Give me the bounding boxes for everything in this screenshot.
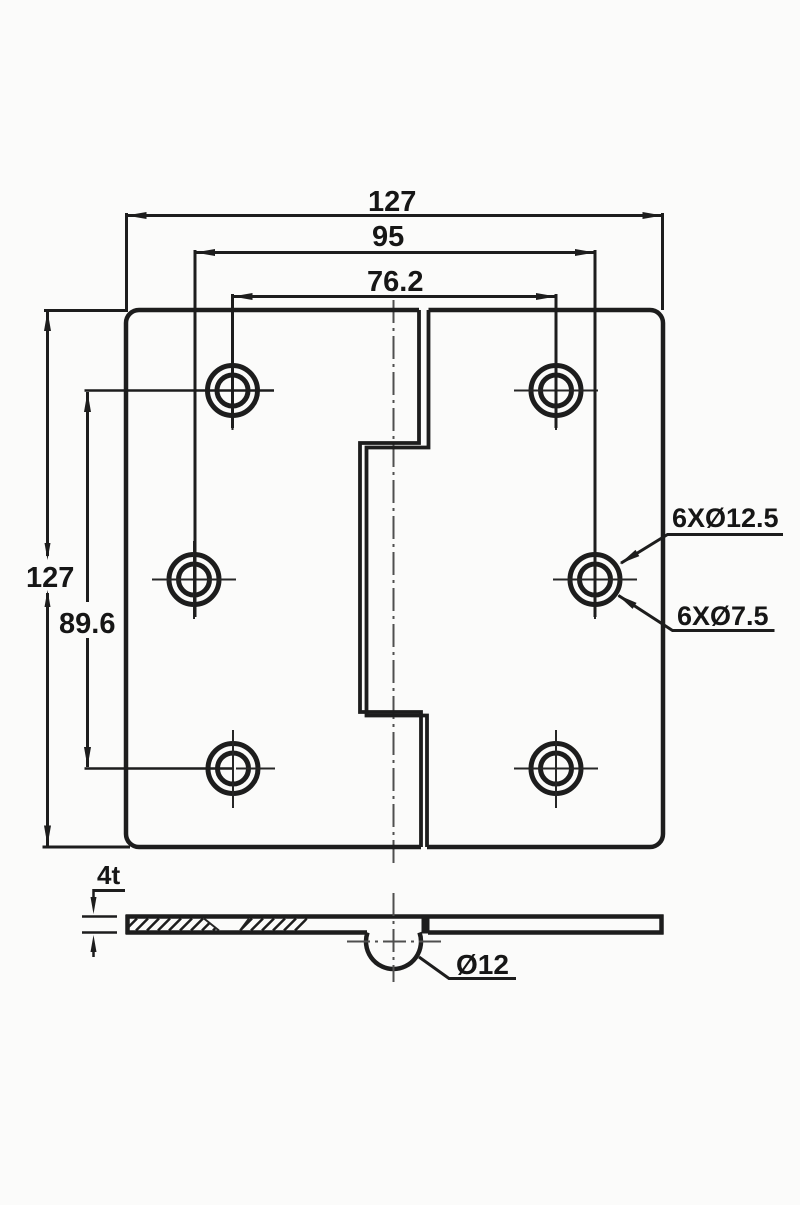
hole bottom-right [514, 730, 598, 808]
dimension 95 [195, 221, 595, 617]
svg-text:Ø12: Ø12 [456, 949, 509, 980]
svg-text:95: 95 [372, 221, 404, 253]
svg-text:127: 127 [368, 186, 416, 218]
hatching right of countersink [240, 919, 318, 931]
leaf joint line left [360, 310, 421, 847]
countersink cone edge right [240, 919, 249, 931]
dimension 89.6 [59, 391, 274, 769]
label 6X dia 7.5 leader [617, 595, 775, 632]
dimension 76.2 [233, 266, 557, 428]
dimension 127 left [26, 311, 130, 848]
leaf joint line right [367, 310, 429, 847]
svg-text:6XØ12.5: 6XØ12.5 [672, 503, 779, 533]
hatching left section [125, 919, 225, 931]
side view left end cap [125, 915, 130, 935]
hole middle-right [553, 541, 637, 619]
svg-text:6XØ7.5: 6XØ7.5 [677, 601, 769, 631]
dimension 4t [82, 860, 125, 957]
plate right leaf outline [427, 310, 663, 847]
centerline vertical (front view) [393, 300, 395, 866]
centerline vertical (side view) [393, 893, 395, 982]
label 6X dia 12.5 leader [620, 503, 784, 564]
side view right end cap [659, 915, 664, 935]
svg-text:76.2: 76.2 [367, 266, 423, 298]
hole top-right [514, 352, 598, 430]
side view top surface [126, 914, 664, 919]
dimension 127 top [127, 186, 663, 310]
svg-text:89.6: 89.6 [59, 608, 115, 640]
hole middle-left [152, 541, 236, 619]
side view bottom surface left [126, 930, 367, 935]
knuckle curl arc [366, 933, 421, 969]
plate left leaf outline [126, 310, 421, 847]
countersink cone edge left [204, 919, 219, 931]
label dia 12 leader [419, 949, 516, 980]
svg-text:127: 127 [26, 562, 74, 594]
centerline pin axis [347, 941, 441, 943]
side view bottom surface right [428, 930, 664, 935]
svg-text:4t: 4t [97, 860, 120, 890]
hole bottom-left [208, 730, 275, 808]
hole top-left [208, 352, 258, 430]
knuckle end bar [422, 915, 430, 934]
